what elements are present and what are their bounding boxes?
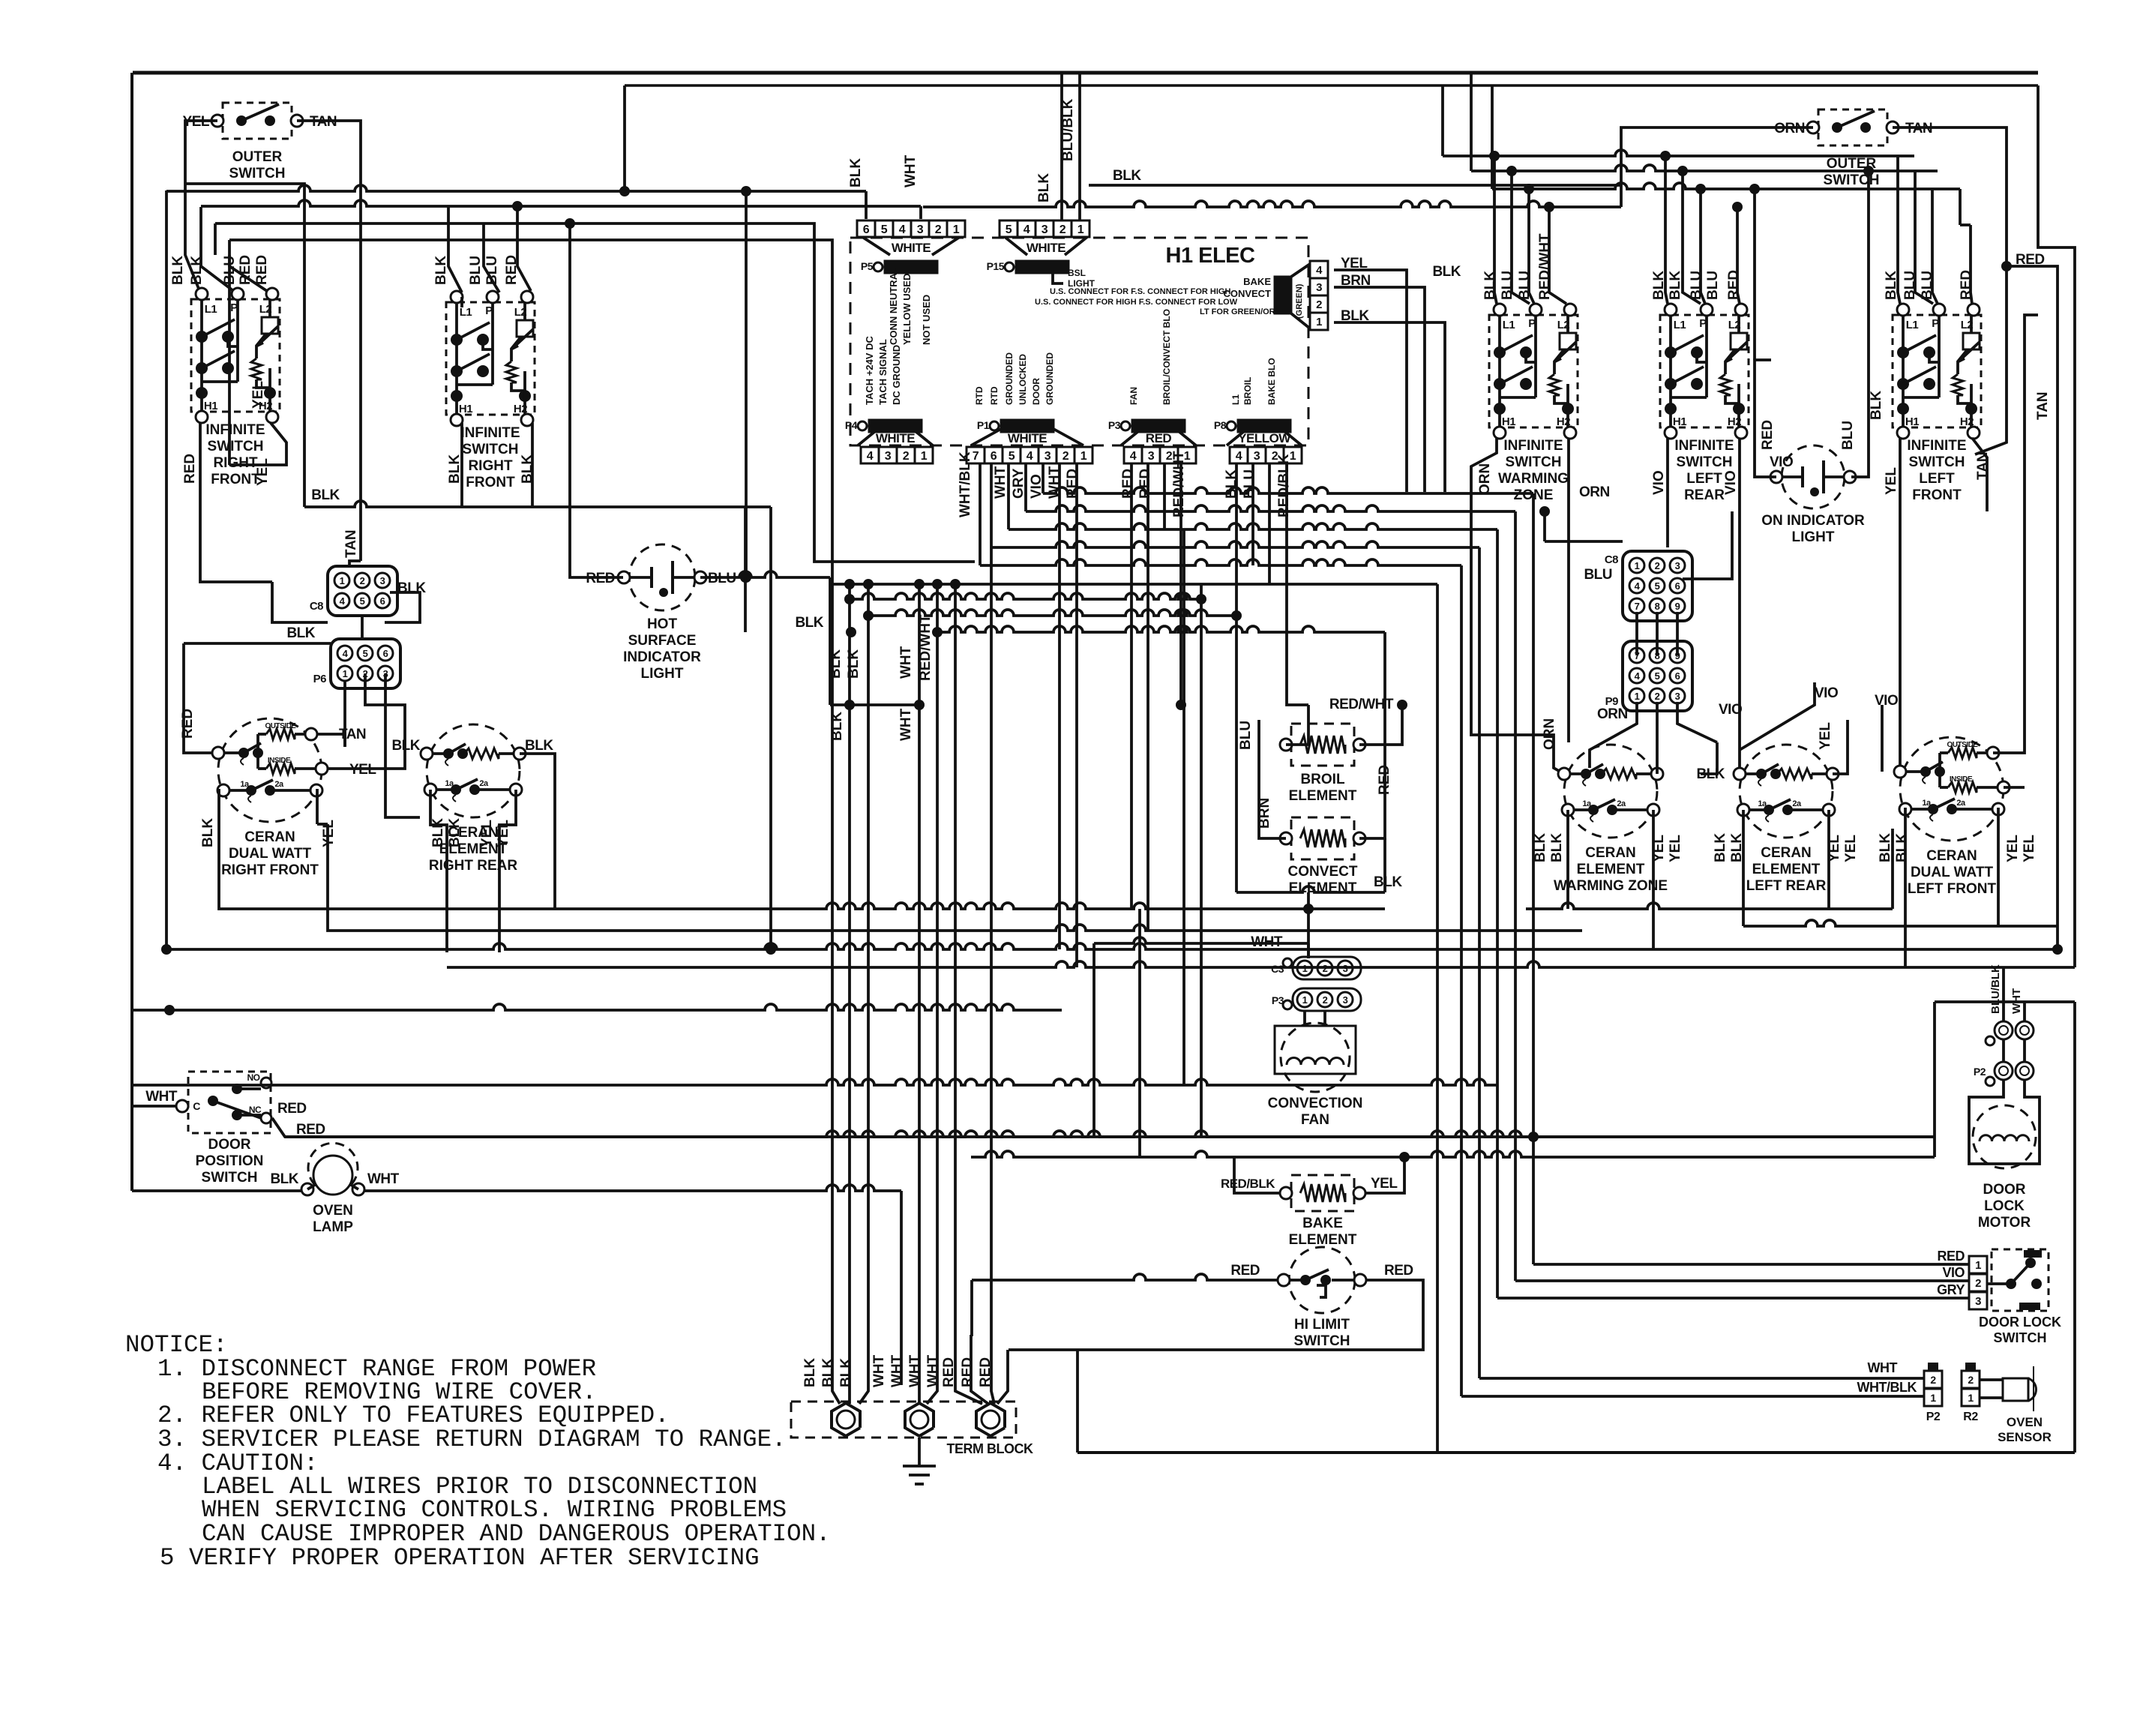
svg-text:RIGHT: RIGHT (468, 458, 513, 474)
svg-text:CONN NEUTRAL: CONN NEUTRAL (888, 267, 899, 345)
svg-text:C8: C8 (310, 600, 323, 613)
wire bus left y245 (185, 184, 304, 507)
svg-text:BLK: BLK (170, 256, 186, 285)
svg-text:LEFT FRONT: LEFT FRONT (1908, 881, 1997, 897)
svg-text:CERAN: CERAN (1761, 845, 1812, 861)
wire P1 pin2 down (1058, 463, 1061, 949)
svg-text:SWITCH: SWITCH (1677, 454, 1733, 470)
connector P2 (oven sensor) (1924, 1371, 1942, 1388)
svg-text:VIO: VIO (1651, 470, 1667, 495)
svg-text:SWITCH: SWITCH (1994, 1330, 2047, 1345)
svg-text:INFINITE: INFINITE (205, 422, 265, 438)
svg-text:SWITCH: SWITCH (229, 166, 286, 181)
wire feeds warming zone (1494, 156, 1497, 304)
wire ceran1 bottom loop (219, 789, 550, 909)
wire H2 yel (229, 423, 286, 465)
svg-text:6: 6 (991, 450, 997, 463)
svg-text:4: 4 (1316, 264, 1323, 277)
wires around C8 right (1683, 511, 1732, 579)
svg-text:BLU: BLU (468, 256, 484, 285)
switch INFINITE SWITCH LEFT REAR (1660, 315, 1749, 427)
wire BLK bus y676 to C8 (304, 501, 771, 507)
switch DOOR LOCK SWITCH (1969, 1256, 1987, 1273)
svg-text:BLU: BLU (1840, 421, 1856, 450)
wire BLK into P6 (184, 642, 331, 645)
indicator ON INDICATOR LIGHT (1782, 445, 1845, 508)
svg-text:DC GROUND: DC GROUND (891, 345, 902, 405)
wires C8 to P9 (1635, 612, 1638, 655)
element BROIL ELEMENT (1291, 724, 1354, 766)
svg-text:3: 3 (1254, 450, 1260, 463)
connector C2 (door lock) (1995, 1021, 2013, 1039)
control board H1 ELEC box (850, 238, 1308, 445)
svg-text:CERAN: CERAN (1585, 845, 1636, 861)
svg-text:BLU/BLK: BLU/BLK (1989, 964, 2002, 1014)
connector R2 (oven sensor) (1962, 1371, 1980, 1388)
svg-text:VIO: VIO (1942, 1265, 1965, 1280)
element CERAN ELEMENT RIGHT REAR (427, 724, 520, 817)
svg-text:RED: RED (1384, 1263, 1413, 1279)
wire bus y1241 (550, 925, 1582, 931)
svg-text:WHT: WHT (871, 1354, 887, 1387)
wire bus y1212 (550, 903, 1385, 909)
svg-text:R2: R2 (1963, 1411, 1978, 1423)
svg-text:ELEMENT: ELEMENT (1289, 1232, 1357, 1248)
svg-text:2: 2 (1968, 1374, 1974, 1386)
svg-text:TACH +24V DC: TACH +24V DC (864, 336, 875, 405)
wire bus y276 extension right (923, 201, 1621, 207)
svg-text:2: 2 (1655, 560, 1660, 571)
svg-text:1a: 1a (1922, 799, 1932, 808)
switch INFINITE SWITCH WARMING ZONE (1489, 315, 1578, 427)
svg-text:TACH SIGNAL: TACH SIGNAL (877, 339, 889, 405)
svg-text:TERM BLOCK: TERM BLOCK (947, 1441, 1033, 1456)
svg-text:BLK: BLK (1869, 391, 1884, 420)
wire C2/P2 up (2002, 967, 2005, 1021)
svg-text:LAMP: LAMP (313, 1219, 353, 1235)
element CONVECT ELEMENT (1291, 817, 1354, 859)
svg-text:P15: P15 (987, 260, 1005, 272)
svg-text:SWITCH: SWITCH (208, 439, 264, 454)
svg-text:ELEMENT: ELEMENT (1289, 788, 1357, 804)
svg-text:P3: P3 (1108, 419, 1121, 431)
svg-text:H1: H1 (459, 403, 472, 415)
svg-text:(GREEN): (GREEN) (1295, 283, 1304, 319)
wire RED junction (1176, 700, 1186, 710)
wire C8 pins down (272, 582, 328, 622)
switch OUTER SWITCH (right) (1818, 109, 1887, 145)
svg-text:3: 3 (885, 450, 892, 463)
svg-text:ORN: ORN (1477, 463, 1493, 495)
wire on indicator wires (1755, 360, 1776, 477)
svg-text:CONVECT: CONVECT (1223, 288, 1271, 299)
svg-text:DUAL WATT: DUAL WATT (229, 846, 312, 862)
wire bus y275 (201, 200, 921, 206)
fan CONVECTION FAN (1275, 1026, 1356, 1074)
svg-text:3: 3 (1975, 1295, 1981, 1308)
wire bus y320 (229, 240, 1437, 584)
wire BLU/BLK down from top (1060, 73, 1063, 220)
svg-text:BLU: BLU (1705, 271, 1721, 300)
wire from switch2 H2 down right (769, 507, 772, 949)
svg-text:OVEN: OVEN (313, 1203, 353, 1219)
wire bus y298 extension right (813, 222, 816, 225)
svg-text:1: 1 (1316, 316, 1322, 328)
element CERAN DUAL WATT LEFT FRONT (1900, 737, 2004, 841)
svg-text:GRY: GRY (1011, 468, 1027, 499)
svg-text:1: 1 (1930, 1392, 1936, 1404)
wire fan line y821 (868, 610, 1236, 616)
wire BLK from convect area (1236, 886, 1385, 892)
wire right border lower (2073, 1002, 2076, 1453)
svg-text:LIGHT: LIGHT (641, 666, 684, 682)
svg-text:RIGHT: RIGHT (213, 455, 258, 471)
svg-text:2: 2 (1060, 223, 1066, 236)
svg-text:BLK: BLK (1878, 833, 1893, 862)
svg-text:8: 8 (1655, 601, 1660, 612)
svg-text:1: 1 (1302, 994, 1308, 1006)
connector P3 strip RED (1124, 447, 1142, 463)
svg-text:DOOR: DOOR (208, 1137, 251, 1153)
wire wht to door switch (132, 1105, 176, 1108)
svg-text:RED: RED (1937, 1249, 1965, 1264)
svg-text:WHT: WHT (907, 1354, 923, 1387)
svg-text:1: 1 (921, 450, 928, 463)
svg-text:FRONT: FRONT (466, 475, 515, 490)
svg-text:3: 3 (1343, 994, 1348, 1006)
svg-text:RED: RED (960, 1357, 976, 1387)
svg-text:P6: P6 (313, 673, 327, 685)
svg-text:BLK: BLK (430, 818, 446, 847)
svg-text:5: 5 (1655, 580, 1660, 592)
svg-text:SWITCH: SWITCH (1294, 1333, 1350, 1349)
svg-text:3: 3 (1042, 223, 1048, 236)
svg-text:CERAN: CERAN (244, 829, 295, 845)
wire BRN from green conn (1334, 287, 1425, 492)
wire ceran2 right (520, 754, 555, 909)
wire feeds left rear (1665, 156, 1668, 304)
wire red junction right (2001, 261, 2012, 271)
wire H1 right front down (200, 423, 272, 582)
wire BLK top bus right half (625, 84, 2038, 87)
wire pin7 down (1460, 565, 1463, 1396)
svg-text:1: 1 (1635, 560, 1640, 571)
svg-text:WHT: WHT (903, 154, 919, 187)
svg-text:BLK: BLK (828, 649, 844, 679)
svg-text:6: 6 (863, 223, 870, 236)
svg-text:BLK: BLK (1549, 833, 1565, 862)
wire drop to switch2 L2 (517, 206, 531, 291)
wire center bus y730 (991, 541, 1479, 547)
wire left front H down (1899, 438, 1902, 772)
svg-text:RIGHT REAR: RIGHT REAR (429, 858, 518, 874)
svg-text:WHT: WHT (993, 466, 1009, 499)
connector C3 (1293, 957, 1361, 979)
connector P8 strip YELLOW (1230, 447, 1248, 463)
switch DOOR POSITION SWITCH (188, 1072, 271, 1133)
svg-text:GROUNDED: GROUNDED (1045, 352, 1055, 405)
svg-text:P4: P4 (845, 419, 858, 431)
svg-text:BLK: BLK (1374, 874, 1402, 890)
wire fan wires (1303, 1011, 1306, 1026)
svg-text:BLK: BLK (447, 818, 463, 847)
wire orn from right outer switch (1621, 127, 1813, 207)
svg-text:INFINITE: INFINITE (1503, 438, 1563, 454)
svg-text:SWITCH: SWITCH (463, 442, 519, 457)
wire left rear top wiring (1740, 682, 1815, 750)
svg-text:BLK: BLK (270, 1171, 298, 1187)
svg-text:1a: 1a (240, 780, 250, 789)
svg-text:RIGHT FRONT: RIGHT FRONT (221, 862, 319, 878)
svg-text:BLK: BLK (838, 1358, 854, 1387)
svg-text:C3: C3 (1271, 963, 1284, 975)
svg-text:WHT: WHT (925, 1354, 941, 1387)
svg-text:1a: 1a (1582, 799, 1592, 808)
wire fan line y843 (937, 626, 1385, 632)
wire C8 col2 down to P6 (361, 616, 364, 639)
wire drop from top BLK bus (623, 85, 626, 191)
svg-text:BLK: BLK (795, 615, 823, 631)
svg-text:2: 2 (1323, 963, 1328, 974)
connector P2 (door lock) (1995, 1062, 2013, 1080)
svg-text:BAKE BLO: BAKE BLO (1266, 358, 1277, 405)
wire drop to hot surface light BLU (745, 191, 748, 577)
svg-text:RTD: RTD (974, 386, 985, 405)
svg-text:YEL: YEL (255, 458, 271, 486)
svg-text:C8: C8 (1605, 553, 1618, 566)
svg-text:2: 2 (1063, 450, 1069, 463)
plug WHITE P15 (1005, 237, 1027, 255)
svg-text:SENSOR: SENSOR (1998, 1430, 2052, 1444)
svg-text:BLK: BLK (433, 256, 449, 285)
svg-text:BLK: BLK (820, 1358, 836, 1387)
svg-text:1: 1 (343, 668, 348, 679)
svg-text:OUTSIDE: OUTSIDE (1947, 741, 1979, 749)
svg-text:5 VERIFY PROPER OPERATION AFT: 5 VERIFY PROPER OPERATION AFTER SERVICIN… (160, 1544, 760, 1572)
svg-text:ELEMENT: ELEMENT (1752, 862, 1821, 877)
frame border left (130, 73, 133, 1191)
wire bus y1290 (447, 961, 2075, 967)
wire vertical x1579 (1182, 529, 1185, 1085)
switch INFINITE SWITCH RIGHT FRONT (191, 299, 280, 412)
svg-text:1: 1 (1968, 1392, 1974, 1404)
wire bottom border (1077, 1451, 2075, 1454)
wire P1 pin1 down (1075, 463, 1078, 967)
svg-text:H1: H1 (1502, 415, 1515, 428)
wire from left outer switch (185, 121, 217, 184)
svg-text:FAN: FAN (1128, 387, 1139, 405)
svg-text:WHT: WHT (1868, 1360, 1898, 1375)
svg-text:VIO: VIO (1875, 693, 1898, 709)
svg-text:5: 5 (1655, 670, 1660, 682)
svg-text:9: 9 (1675, 601, 1680, 612)
wire bus y1347 (133, 1004, 1062, 1010)
connector P1 strip (967, 447, 985, 463)
svg-text:WARMING: WARMING (1498, 471, 1569, 487)
switch OUTER SWITCH (left) (223, 103, 292, 139)
wire top right corner down (2038, 85, 2075, 967)
svg-text:NOT USED: NOT USED (921, 295, 932, 345)
svg-text:H1: H1 (204, 400, 217, 412)
wire left vertical bundle right section (1524, 907, 1527, 910)
svg-text:1: 1 (1302, 963, 1308, 974)
svg-text:L1: L1 (460, 306, 472, 319)
svg-text:1a: 1a (1758, 799, 1767, 808)
connector P3 (fan) (1293, 988, 1361, 1011)
svg-text:H1: H1 (1673, 415, 1686, 428)
ground symbol (918, 1438, 921, 1466)
svg-text:BSL: BSL (1068, 268, 1086, 278)
svg-text:3: 3 (1343, 963, 1348, 974)
svg-text:H1: H1 (1905, 415, 1919, 428)
svg-text:RED/WHT: RED/WHT (1329, 697, 1394, 712)
svg-text:4: 4 (1236, 450, 1242, 463)
wire BLK label line right (1089, 184, 1621, 187)
wire BLK from green conn (1334, 322, 1445, 492)
svg-text:YEL: YEL (2022, 835, 2037, 862)
svg-text:U.S. CONNECT FOR F.S. CONNECT: U.S. CONNECT FOR F.S. CONNECT FOR HIGH (1050, 287, 1230, 296)
svg-text:1: 1 (953, 223, 960, 236)
connector P6 (331, 639, 400, 688)
svg-text:3: 3 (380, 575, 385, 586)
svg-text:BLU/BLK: BLU/BLK (1060, 98, 1076, 161)
svg-text:BLK: BLK (802, 1358, 818, 1387)
svg-text:YEL: YEL (1371, 1176, 1398, 1192)
svg-text:7: 7 (1635, 601, 1640, 612)
svg-text:2: 2 (903, 450, 910, 463)
svg-text:2a: 2a (479, 779, 489, 788)
wire WHT to C3 (1094, 937, 1308, 943)
svg-text:DOOR: DOOR (1983, 1182, 2026, 1198)
wire tan right outer switch (1893, 127, 2007, 266)
svg-text:6: 6 (1675, 580, 1680, 592)
svg-text:L1: L1 (1674, 319, 1686, 331)
connector P4 strip (861, 447, 879, 463)
wire wht/blk to oven sensor (1461, 1395, 1924, 1398)
svg-text:OUTSIDE: OUTSIDE (265, 722, 297, 730)
svg-text:5: 5 (881, 223, 888, 236)
svg-text:BLK: BLK (286, 625, 315, 641)
svg-text:2a: 2a (1792, 799, 1802, 808)
svg-text:CONVECTION: CONVECTION (1268, 1096, 1363, 1111)
svg-text:RED: RED (1230, 1263, 1260, 1279)
svg-text:POSITION: POSITION (196, 1153, 264, 1169)
svg-text:SWITCH: SWITCH (1506, 454, 1562, 470)
svg-text:LIGHT: LIGHT (1792, 529, 1835, 545)
svg-text:BLU: BLU (1584, 567, 1612, 583)
wire convect loop (1259, 720, 1286, 838)
svg-text:BLK: BLK (848, 158, 864, 187)
wire gry to pin3 (1497, 1297, 1969, 1300)
wire bus y1266 (166, 943, 2058, 949)
svg-text:DOOR LOCK: DOOR LOCK (1979, 1315, 2061, 1330)
connector C8 (right 3x3) (1623, 551, 1692, 621)
svg-text:BLK: BLK (1036, 173, 1052, 202)
wire wht to oven sensor (1479, 1377, 1924, 1380)
svg-text:BLK: BLK (1432, 264, 1461, 280)
wire wht from oven lamp (364, 1185, 901, 1191)
svg-text:DUAL WATT: DUAL WATT (1911, 865, 1994, 880)
svg-text:BLK: BLK (1113, 168, 1141, 184)
svg-text:VIO: VIO (1723, 470, 1739, 495)
svg-text:YELLOW: YELLOW (1238, 431, 1291, 445)
svg-text:BLK: BLK (1713, 833, 1728, 862)
svg-text:P2: P2 (1926, 1411, 1941, 1423)
svg-text:YELLOW USED: YELLOW USED (901, 274, 913, 345)
svg-text:H1 ELEC: H1 ELEC (1166, 244, 1256, 268)
wire center bus y682 (1026, 505, 1515, 511)
connector BAKE/CONVECT right edge (1310, 261, 1328, 278)
svg-text:6: 6 (380, 595, 385, 607)
wire vertical x1602 (1200, 584, 1203, 1137)
wire red from door switch (272, 1118, 1935, 1137)
svg-text:REAR: REAR (1684, 487, 1725, 503)
svg-text:4: 4 (1027, 450, 1033, 463)
svg-text:OUTER: OUTER (232, 149, 283, 165)
svg-text:YEL: YEL (1818, 722, 1833, 750)
svg-text:INFINITE: INFINITE (1674, 438, 1734, 454)
svg-text:ELEMENT: ELEMENT (1577, 862, 1645, 877)
wire verticals P8 pins down (1235, 463, 1238, 892)
svg-text:BROIL: BROIL (1300, 772, 1345, 787)
wire YEL from green conn (1334, 270, 1407, 492)
svg-text:CONVECT: CONVECT (1288, 864, 1358, 880)
svg-text:YEL: YEL (479, 820, 495, 847)
svg-text:WHITE: WHITE (876, 431, 915, 445)
svg-text:L1: L1 (205, 303, 217, 316)
svg-text:6: 6 (383, 648, 388, 659)
wire BLK right of light (830, 703, 919, 706)
wire blu from hot surface light (700, 571, 830, 577)
svg-text:3: 3 (1045, 450, 1051, 463)
svg-text:5: 5 (1006, 223, 1012, 236)
switch INFINITE SWITCH LEFT FRONT (1893, 315, 1981, 427)
svg-text:3: 3 (1316, 281, 1322, 294)
wire left rear H down (1666, 438, 1669, 547)
svg-text:VIO: VIO (1770, 454, 1793, 470)
svg-text:1: 1 (1975, 1259, 1981, 1272)
svg-text:BLU: BLU (1238, 721, 1254, 750)
svg-text:WHT: WHT (889, 1354, 905, 1387)
svg-text:LEFT REAR: LEFT REAR (1746, 878, 1827, 894)
element CERAN DUAL WATT RIGHT FRONT (218, 718, 322, 822)
svg-text:NC: NC (249, 1105, 262, 1115)
wire warming zone wiring (1656, 750, 1659, 774)
wire broil loop (1397, 700, 1407, 710)
svg-text:HOT: HOT (647, 616, 678, 632)
svg-text:HI LIMIT: HI LIMIT (1294, 1317, 1350, 1333)
svg-text:BLK: BLK (1533, 833, 1548, 862)
svg-text:BLK: BLK (1668, 271, 1683, 300)
svg-text:U.S. CONNECT FOR HIGH F.S. CON: U.S. CONNECT FOR HIGH F.S. CONNECT FOR L… (1035, 298, 1238, 307)
svg-text:RED: RED (296, 1122, 325, 1138)
wire 1543 long (971, 1151, 1935, 1157)
svg-text:GRY: GRY (1937, 1282, 1965, 1297)
element BAKE ELEMENT (1291, 1175, 1354, 1211)
svg-text:OVEN: OVEN (2007, 1415, 2043, 1429)
svg-text:ON INDICATOR: ON INDICATOR (1761, 513, 1865, 529)
svg-text:BAKE: BAKE (1243, 276, 1271, 287)
connector P9 (3x3) (1623, 641, 1692, 711)
svg-text:YEL: YEL (250, 381, 266, 409)
svg-text:RTD: RTD (989, 386, 1000, 405)
svg-text:LOCK: LOCK (1984, 1198, 2025, 1214)
frame border top (133, 71, 2038, 75)
wire bus 1447 long (133, 1079, 1497, 1085)
svg-text:P2: P2 (1974, 1066, 1986, 1078)
wire ceran1 yel (328, 757, 405, 769)
svg-text:4: 4 (1130, 450, 1137, 463)
